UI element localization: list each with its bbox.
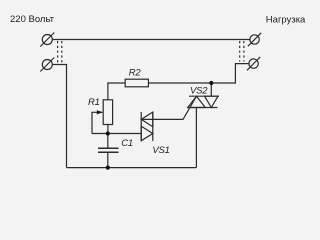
diac VS1 left bar [140,112,142,141]
wire from bottom-right terminal to node [148,64,249,83]
svg-text:R2: R2 [129,67,142,78]
svg-text:VS2: VS2 [190,85,208,96]
triac VS2 left triangle [188,96,206,107]
wire R2 left to R1 top [108,83,125,100]
diac VS1 lower triangle [141,126,153,141]
triac VS2 right triangle [205,96,218,107]
triac VS2 top bar [189,95,219,97]
wire triac MT2 up to node [210,83,212,96]
terminal X1 top-left circle [40,33,54,47]
terminal X2 bottom-right circle [247,57,260,70]
capacitor C1 bottom lead [107,153,109,168]
wire triac MT1 down to bottom rail [195,108,197,168]
wire from bottom-left terminal down left side [52,65,66,168]
capacitor C1 top lead [107,134,109,148]
plug connector dashes right [240,41,244,62]
wire R1 bottom [107,125,109,134]
terminal X1 bottom-left circle [40,58,54,72]
svg-text:R1: R1 [88,97,100,108]
wire top rail 220V to load [52,39,250,41]
diac VS1 upper triangle [141,112,153,127]
resistor R2 [125,79,148,87]
wire diac to triac gate [141,96,196,119]
svg-text:C1: C1 [121,138,133,149]
svg-text:220 Вольт: 220 Вольт [10,14,55,25]
svg-text:VS1: VS1 [152,145,169,156]
terminal X2 top-right circle [248,33,261,46]
plug connector dashes left [58,41,62,63]
wire R1 wiper [92,112,102,133]
node junction dot at triac MT2 [209,81,213,85]
resistor R1 (rheostat) body [103,100,112,125]
wire bottom rail [67,167,197,169]
capacitor C1 plates [98,147,119,149]
node junction dot at R1/C1 [106,131,110,135]
diac VS1 right bar [152,112,154,141]
triac VS2 bottom bar [188,107,218,109]
wire node to diac [92,133,141,135]
svg-text:Нагрузка: Нагрузка [266,14,306,25]
node junction dot at C1 bottom [106,166,110,170]
arrowhead of R1 wiper [97,110,103,114]
